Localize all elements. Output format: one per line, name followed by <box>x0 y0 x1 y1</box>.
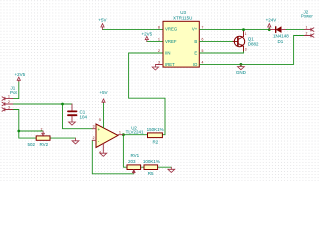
svg-text:IIN: IIN <box>165 51 171 56</box>
wire +2V5 to VREF pin1 <box>147 41 163 43</box>
wire top rail pin7 to +24V <box>200 29 270 31</box>
svg-text:3: 3 <box>158 61 160 65</box>
wire +5V to VREG pin8 <box>103 29 163 31</box>
svg-text:R5: R5 <box>148 171 154 176</box>
svg-text:Power: Power <box>301 14 313 19</box>
svg-text:D882: D882 <box>248 41 259 46</box>
svg-text:+24V: +24V <box>266 18 277 23</box>
svg-text:8: 8 <box>158 26 160 30</box>
potentiometer RV2 <box>28 127 51 146</box>
svg-text:3: 3 <box>93 125 95 129</box>
ground at R5 right <box>168 167 175 172</box>
svg-text:2: 2 <box>41 127 43 131</box>
power +5V (left) <box>101 24 104 30</box>
svg-text:RV1: RV1 <box>131 153 140 158</box>
wire inverting input to RV1 wiper <box>92 140 134 174</box>
wire op-amp V+ <box>103 103 105 128</box>
IC U3 XTR115U <box>156 10 203 67</box>
svg-text:V+: V+ <box>192 27 198 32</box>
wire RV2 right to GND <box>50 137 76 139</box>
svg-text:VREF: VREF <box>165 39 177 44</box>
ground at op-amp V- <box>100 151 107 156</box>
svg-text:+2V5: +2V5 <box>14 72 25 77</box>
svg-text:E: E <box>194 51 197 56</box>
resistor R5 100K1% <box>143 159 160 176</box>
wire base pin6 to Q1 <box>200 41 233 43</box>
wire op-amp output to R2 left <box>123 134 147 136</box>
op-amp U2 TLV2241 <box>92 118 144 155</box>
ground at IRET pin3 <box>152 65 158 71</box>
wire diode to J2 pin1 <box>286 29 304 31</box>
svg-text:+: + <box>98 127 101 132</box>
svg-text:2: 2 <box>93 136 95 140</box>
power +2V5 (left) <box>17 77 20 81</box>
wire junction down to +input <box>63 104 93 129</box>
power +5V (op-amp) <box>102 99 105 103</box>
svg-text:IO: IO <box>193 62 198 67</box>
node junction J1.2/C1/+in <box>61 103 64 106</box>
svg-text:U3: U3 <box>180 10 186 15</box>
svg-text:1N4148: 1N4148 <box>273 34 289 39</box>
svg-text:5: 5 <box>202 49 204 53</box>
wire RV2 wiper branch <box>19 130 43 132</box>
wire J1 pin2 to C1 top <box>13 103 72 105</box>
wire J1 pin3 down to RV2 <box>13 110 36 139</box>
ground below C1 <box>69 122 76 125</box>
svg-text:TLV2241: TLV2241 <box>126 130 144 135</box>
svg-text:1: 1 <box>306 26 308 30</box>
svg-text:+5V: +5V <box>99 90 107 95</box>
svg-text:7: 7 <box>202 26 204 30</box>
svg-text:4: 4 <box>202 61 204 65</box>
ground on IO wire <box>238 64 245 69</box>
connector J2 Power <box>301 10 314 38</box>
svg-text:1: 1 <box>119 131 121 135</box>
svg-text:1: 1 <box>245 32 247 36</box>
svg-text:203: 203 <box>128 159 136 164</box>
svg-text:+2V5: +2V5 <box>141 32 152 37</box>
svg-text:RV2: RV2 <box>40 142 49 147</box>
svg-text:R2: R2 <box>153 140 159 145</box>
svg-text:2: 2 <box>8 100 10 104</box>
svg-text:2: 2 <box>306 32 308 36</box>
ground at RV2 right <box>72 138 79 144</box>
svg-text:VREG: VREG <box>165 27 178 32</box>
resistor R2 150K1% <box>147 127 164 145</box>
svg-text:XTR115U: XTR115U <box>173 15 192 20</box>
svg-text:+5V: +5V <box>98 17 106 22</box>
node collector junction <box>242 28 245 31</box>
wire emitter to pin5 <box>200 51 244 53</box>
svg-text:Pot: Pot <box>10 90 18 95</box>
svg-text:B: B <box>194 39 197 44</box>
svg-text:3: 3 <box>245 48 247 52</box>
svg-text:100K1%: 100K1% <box>143 159 160 164</box>
diode D1 1N4148 <box>269 27 289 44</box>
svg-text:2: 2 <box>158 49 160 53</box>
potentiometer RV1 <box>127 153 141 174</box>
wire IIN net: pin2 to R2 right end <box>129 53 165 135</box>
capacitor C1 <box>68 104 88 122</box>
svg-text:3: 3 <box>8 106 10 110</box>
op-amp V- pin <box>102 144 104 151</box>
svg-text:D1: D1 <box>278 39 284 44</box>
svg-text:IRET: IRET <box>165 62 175 67</box>
wire IO pin4 to J2 pin2 <box>200 36 305 65</box>
svg-text:104: 104 <box>80 115 88 120</box>
wire output junction down to RV1 left <box>123 135 127 168</box>
wire RV1 right to R5 left <box>141 166 144 168</box>
node RV2 wiper junction <box>17 130 20 133</box>
connector J1 Pot <box>2 86 18 112</box>
svg-text:502: 502 <box>28 142 36 147</box>
svg-text:150K1%: 150K1% <box>147 127 164 132</box>
svg-text:6: 6 <box>202 38 204 42</box>
svg-text:1: 1 <box>158 38 160 42</box>
wire R5 right to GND <box>158 166 172 168</box>
power +24V <box>268 24 271 30</box>
transistor Q1 D882 <box>233 30 259 52</box>
node GND junction on IO wire <box>240 63 243 66</box>
svg-text:GND: GND <box>236 70 247 75</box>
svg-text:5: 5 <box>99 118 101 122</box>
node +24V junction <box>268 28 271 31</box>
wire J1 pin1 up to +2V5 <box>13 82 19 99</box>
power +2V5 (mid) <box>145 36 148 41</box>
svg-text:1: 1 <box>8 95 10 99</box>
node output junction <box>122 133 125 136</box>
